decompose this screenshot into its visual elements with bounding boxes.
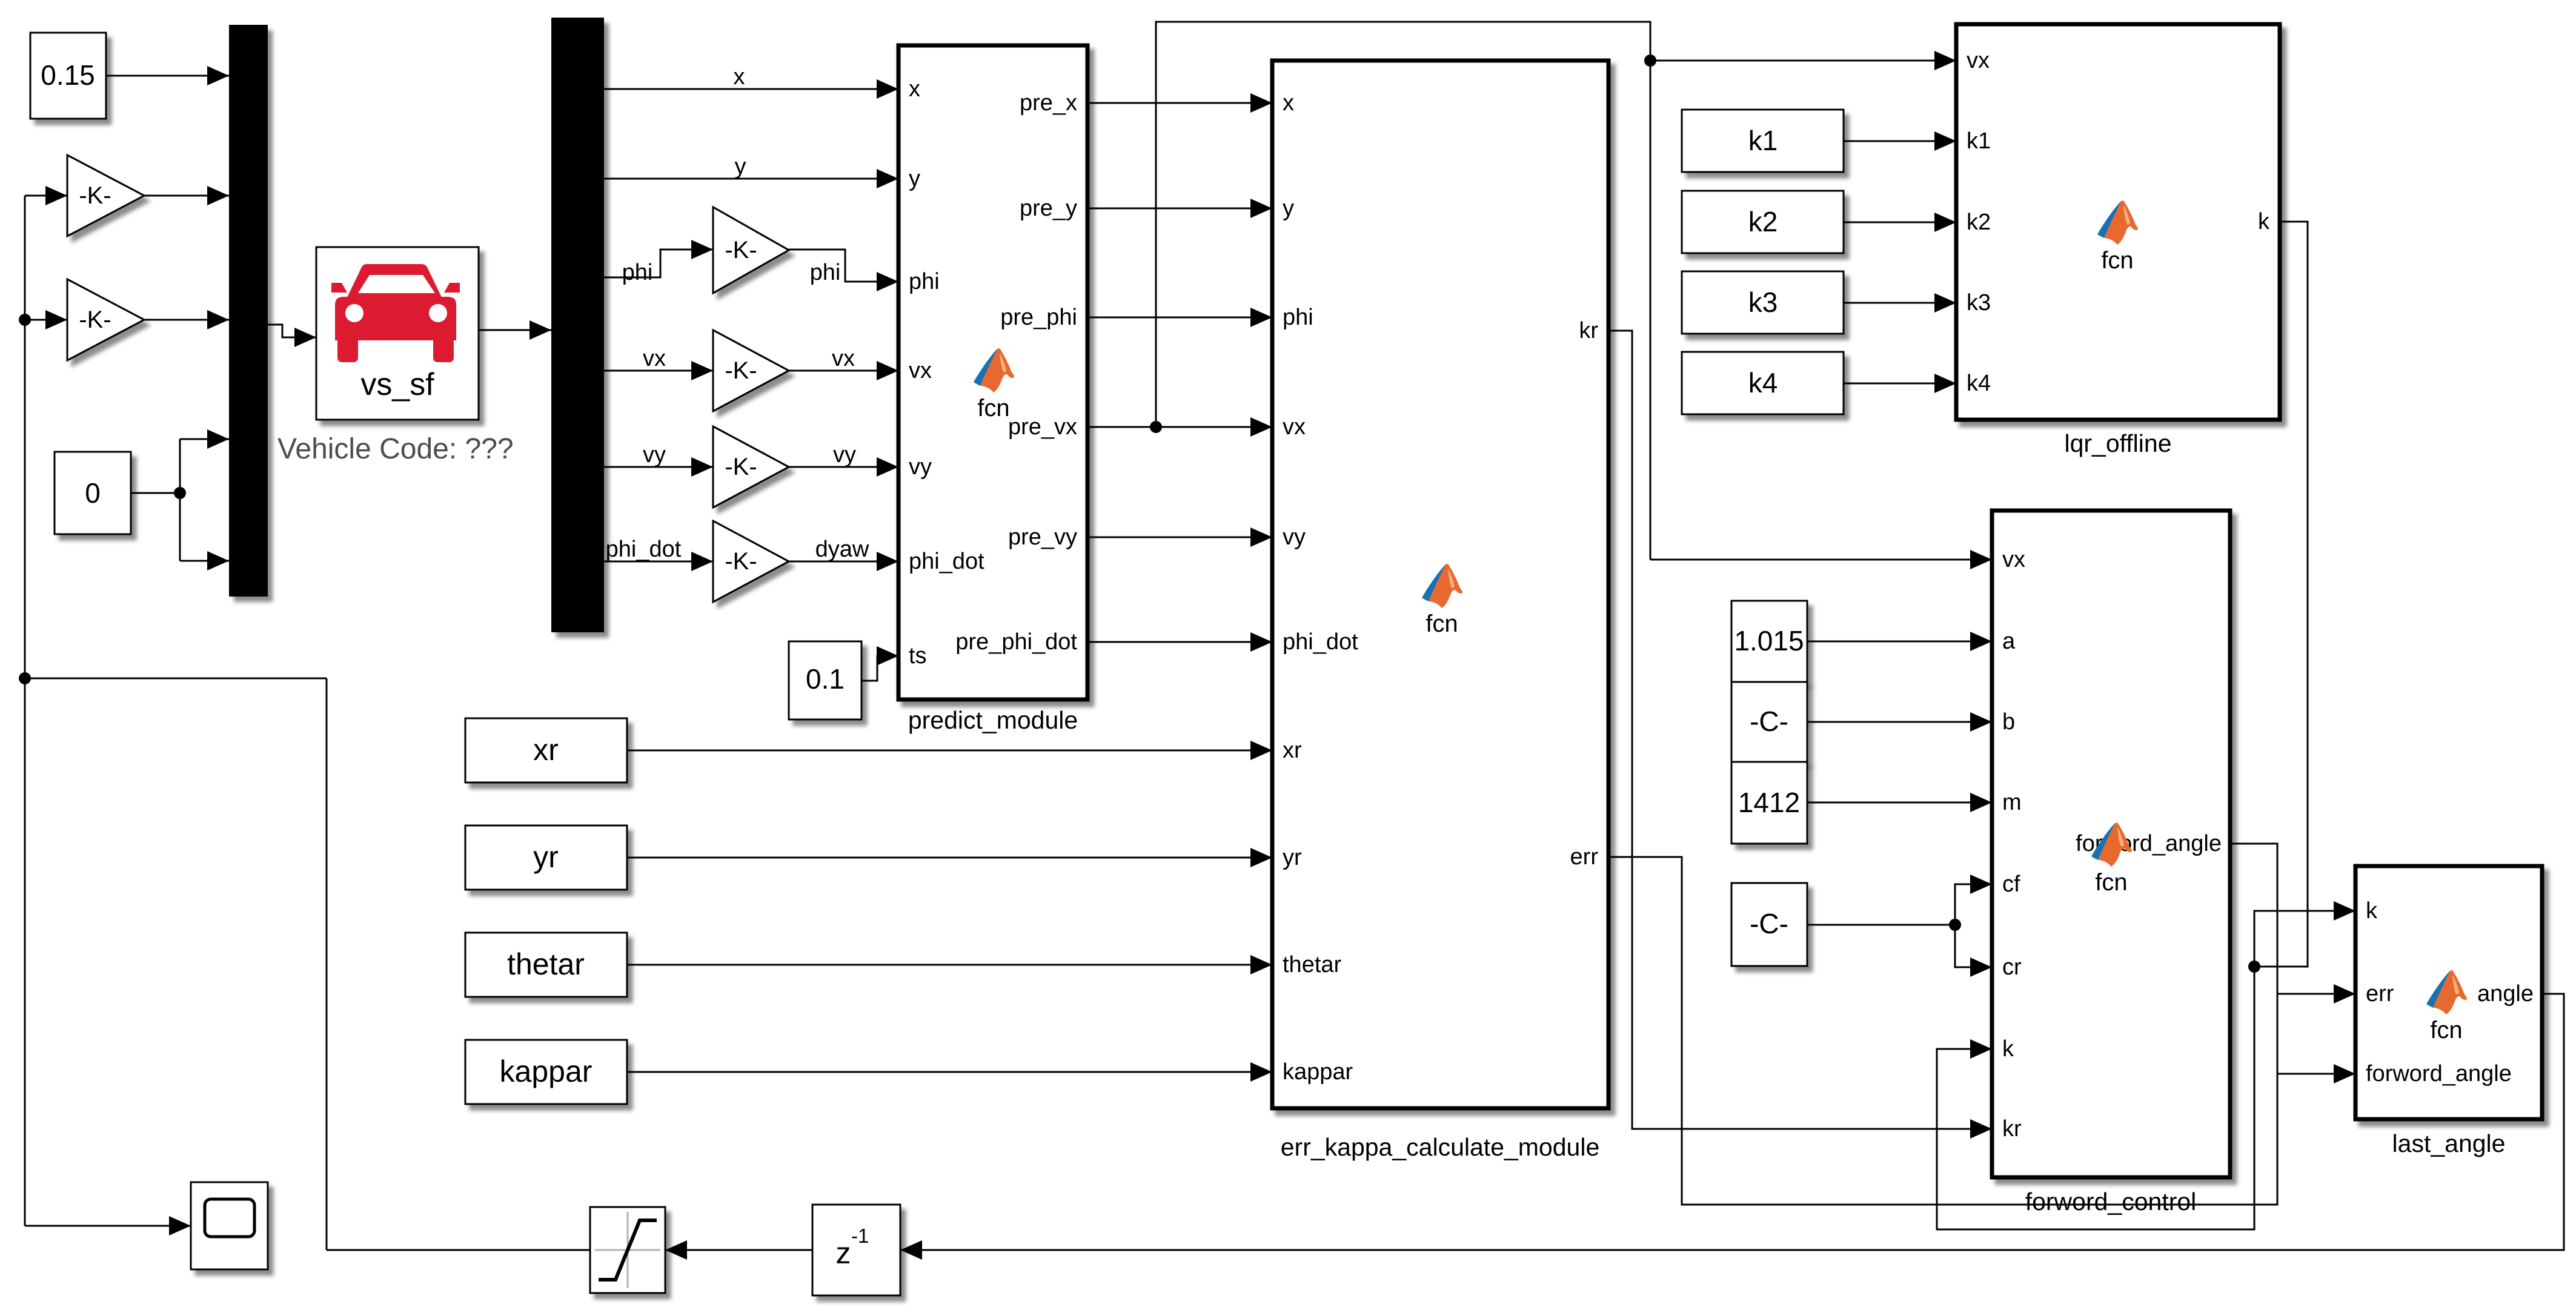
svg-text:forword_control: forword_control [2025, 1188, 2197, 1215]
svg-text:cr: cr [2002, 954, 2022, 980]
wire vx net top route [1156, 22, 1650, 560]
wire saturation out [327, 1249, 590, 1251]
subsystem lqr_offline [1956, 24, 2280, 420]
fcn icon last_angle [2426, 970, 2467, 1014]
wire gain G3 to predict phi [789, 250, 898, 282]
svg-text:xr: xr [533, 733, 559, 767]
junction vx to lqr [1644, 55, 1656, 67]
wire k from lqr_offline [2254, 222, 2308, 967]
junction gain G2 branch [19, 314, 31, 326]
constant k3 [1682, 271, 1844, 334]
svg-text:k2: k2 [1967, 210, 1991, 235]
wire k1 [1844, 141, 1956, 142]
svg-text:-K-: -K- [725, 548, 757, 575]
svg-text:fcn: fcn [2101, 247, 2133, 274]
constant 0.15 [30, 33, 106, 119]
svg-text:a: a [2002, 629, 2016, 654]
wire -C- to cf/cr [1807, 924, 1955, 926]
svg-text:phi: phi [909, 269, 940, 294]
constant -C- front [1731, 682, 1807, 762]
svg-text:ts: ts [909, 643, 927, 669]
wire gain G5 to predict vy [789, 466, 898, 468]
wire gain G2 to mux [144, 319, 229, 321]
source thetar [465, 933, 627, 997]
wire signal phi to gain G3 [604, 250, 713, 277]
constant k2 [1682, 191, 1844, 253]
svg-text:vx: vx [1967, 48, 1990, 73]
wire err to last_angle [1608, 857, 2355, 1205]
svg-text:predict_module: predict_module [908, 706, 1078, 734]
svg-text:pre_phi: pre_phi [1000, 305, 1077, 330]
svg-text:fcn: fcn [1426, 610, 1458, 637]
svg-text:-K-: -K- [79, 306, 111, 333]
svg-text:err_kappa_calculate_module: err_kappa_calculate_module [1281, 1133, 1600, 1161]
fcn icon forword_control [2091, 822, 2132, 867]
wire const 0 out [131, 492, 180, 494]
svg-text:y: y [1283, 196, 1294, 221]
svg-text:k: k [2002, 1036, 2014, 1062]
wire gain G6 dyaw to predict phi_dot [789, 561, 898, 563]
svg-text:y: y [909, 166, 920, 191]
svg-text:vy: vy [1283, 524, 1306, 550]
subsystem predict_module [898, 45, 1087, 699]
constant k4 [1682, 352, 1844, 414]
svg-text:vx: vx [1283, 414, 1306, 440]
svg-text:forword_angle: forword_angle [2366, 1061, 2512, 1086]
subsystem last_angle [2355, 866, 2542, 1119]
svg-text:phi_dot: phi_dot [606, 537, 682, 562]
wire const 0.15 to mux [106, 75, 229, 77]
svg-text:dyaw: dyaw [815, 537, 869, 562]
svg-text:k2: k2 [1748, 206, 1778, 237]
svg-text:fcn: fcn [2430, 1017, 2462, 1043]
gain G6 phi_dot -K- [713, 521, 789, 602]
gain G1 -K- [67, 155, 144, 236]
svg-text:0.1: 0.1 [806, 663, 845, 695]
svg-text:pre_vy: pre_vy [1008, 524, 1077, 550]
wire vs_sf to demux [479, 329, 551, 331]
svg-text:phi: phi [1283, 305, 1313, 330]
svg-text:1412: 1412 [1738, 787, 1800, 818]
svg-text:phi: phi [810, 260, 841, 285]
wire pre_vy [1087, 537, 1272, 538]
svg-text:-K-: -K- [725, 454, 757, 480]
svg-text:vx: vx [909, 358, 932, 383]
saturation block [590, 1207, 665, 1293]
svg-text:y: y [735, 154, 746, 179]
svg-text:Vehicle Code: ???: Vehicle Code: ??? [277, 433, 514, 465]
wire vx to forword_control [1650, 559, 1992, 561]
svg-text:angle: angle [2477, 981, 2534, 1007]
gain G4 vx -K- [713, 330, 789, 411]
svg-text:err: err [2366, 981, 2394, 1007]
svg-text:phi_dot: phi_dot [1283, 629, 1358, 655]
constant 0 [55, 452, 131, 534]
wire const 0 to mux input 5 [180, 560, 229, 562]
svg-text:k: k [2258, 209, 2270, 234]
svg-text:vy: vy [643, 442, 666, 468]
wire signal vy to gain G5 [604, 466, 713, 468]
wire gain G4 to predict vx [789, 370, 898, 372]
fcn icon err_kappa_calculate_module [1422, 564, 1462, 608]
wire into scope [25, 1225, 191, 1227]
wire pre_vx [1087, 426, 1272, 428]
unit delay z^-1 [812, 1205, 900, 1295]
wire k to forword_control [1937, 967, 2254, 1229]
constant 1.015 [1731, 601, 1807, 682]
svg-text:kr: kr [1579, 318, 1598, 343]
svg-text:vx: vx [2002, 547, 2025, 572]
junction cf cr [1949, 919, 1961, 931]
svg-text:b: b [2002, 709, 2015, 735]
wire signal phi_dot to gain G6 [604, 561, 713, 563]
svg-text:kappar: kappar [500, 1054, 593, 1088]
svg-text:k4: k4 [1748, 367, 1778, 399]
svg-text:x: x [734, 64, 745, 90]
svg-text:-C-: -C- [1750, 706, 1788, 737]
svg-text:fcn: fcn [977, 395, 1009, 422]
svg-text:0.15: 0.15 [41, 59, 95, 91]
svg-text:k1: k1 [1748, 125, 1778, 156]
source xr [465, 718, 627, 782]
wire unit delay to saturation [665, 1249, 812, 1251]
svg-text:xr: xr [1283, 738, 1302, 763]
svg-text:x: x [1283, 90, 1294, 116]
subsystem vs_sf vehicle model [316, 247, 479, 420]
wire pre_phi_dot [1087, 641, 1272, 643]
fcn icon lqr_offline [2097, 200, 2138, 245]
svg-text:-K-: -K- [79, 182, 111, 209]
svg-text:z: z [836, 1236, 851, 1270]
wire feedback horizontal upper [25, 678, 327, 680]
wire into gain G2 [25, 319, 67, 321]
wire feedback vertical mid [326, 678, 328, 1250]
svg-text:vx: vx [643, 346, 666, 371]
svg-text:k1: k1 [1967, 128, 1991, 154]
wire pre_phi [1087, 317, 1272, 319]
subsystem err_kappa_calculate_module [1272, 61, 1608, 1108]
wire const 0 branch vertical [179, 439, 181, 561]
mux Mux1 [229, 25, 268, 597]
wire k3 [1844, 302, 1956, 304]
wire angle feedback to unit delay [900, 994, 2564, 1250]
wire signal y [604, 178, 898, 180]
svg-text:yr: yr [533, 840, 559, 874]
svg-text:vy: vy [909, 454, 932, 480]
wire kappar [627, 1071, 1272, 1073]
svg-text:kappar: kappar [1283, 1059, 1353, 1085]
wire const 0 to mux input 4 [180, 438, 229, 440]
junction feedback trunk [19, 672, 31, 684]
svg-text:k: k [2366, 898, 2378, 924]
svg-text:phi_dot: phi_dot [909, 549, 984, 574]
constant k1 [1682, 110, 1844, 172]
svg-text:pre_phi_dot: pre_phi_dot [955, 629, 1077, 655]
svg-text:-K-: -K- [725, 237, 757, 263]
svg-text:k4: k4 [1967, 371, 1991, 396]
wire cr [1955, 925, 1992, 967]
wire pre_y [1087, 208, 1272, 210]
wire const 0.1 to predict ts [861, 656, 898, 681]
junction k net [2248, 961, 2260, 973]
svg-text:last_angle: last_angle [2392, 1129, 2506, 1157]
svg-text:m: m [2002, 790, 2022, 815]
wire xr [627, 750, 1272, 752]
source yr [465, 825, 627, 890]
source kappar [465, 1040, 627, 1104]
wire signal vx to gain G4 [604, 370, 713, 372]
svg-text:thetar: thetar [1283, 952, 1342, 977]
wire m [1807, 802, 1992, 804]
wire k2 [1844, 222, 1956, 223]
svg-text:fcn: fcn [2095, 869, 2127, 896]
junction pre_vx [1150, 421, 1162, 433]
svg-text:k3: k3 [1748, 286, 1778, 318]
junction const 0 branch [174, 487, 186, 499]
wire thetar [627, 964, 1272, 966]
svg-text:thetar: thetar [507, 947, 585, 981]
wire yr [627, 857, 1272, 859]
svg-text:-1: -1 [851, 1225, 869, 1247]
svg-text:x: x [909, 76, 920, 102]
gain G5 vy -K- [713, 426, 789, 508]
svg-text:kr: kr [2002, 1116, 2022, 1142]
wire a [1807, 641, 1992, 643]
svg-text:yr: yr [1283, 845, 1302, 870]
svg-text:-K-: -K- [725, 357, 757, 384]
svg-text:k3: k3 [1967, 290, 1991, 316]
scope [191, 1182, 268, 1269]
svg-text:cf: cf [2002, 871, 2020, 897]
constant 1412 [1731, 762, 1807, 844]
wire b [1807, 721, 1992, 723]
wire gain G1 to mux [144, 195, 229, 197]
svg-text:pre_vx: pre_vx [1008, 414, 1077, 440]
wire k to last_angle [2254, 911, 2355, 967]
svg-text:phi: phi [622, 260, 653, 285]
demux Demux1 [551, 18, 604, 632]
constant -C- cornering [1731, 883, 1807, 966]
svg-text:err: err [1570, 844, 1599, 870]
svg-text:lqr_offline: lqr_offline [2064, 429, 2171, 457]
wire pre_x [1087, 102, 1272, 104]
gain G2 -K- [67, 279, 144, 360]
gain G3 phi -K- [713, 207, 789, 293]
svg-text:pre_y: pre_y [1020, 196, 1077, 221]
wire kr to forword_control [1608, 331, 1992, 1129]
wire forword_angle to last_angle [2230, 844, 2355, 1074]
wire mux to vs_sf [268, 325, 316, 337]
wire cf [1955, 884, 1992, 925]
svg-text:vx: vx [832, 346, 855, 371]
constant 0.1 [789, 641, 861, 719]
svg-text:-C-: -C- [1750, 908, 1788, 939]
wire k4 [1844, 383, 1956, 385]
svg-text:vy: vy [833, 442, 856, 468]
wire feedback trunk vertical left [24, 196, 26, 1226]
svg-text:0: 0 [85, 477, 101, 509]
svg-text:pre_x: pre_x [1020, 90, 1077, 116]
subsystem forword_control [1992, 511, 2230, 1177]
svg-text:vs_sf: vs_sf [360, 367, 434, 402]
fcn icon predict_module [974, 348, 1014, 392]
wire signal x [604, 88, 898, 90]
wire into gain G1 [25, 195, 67, 197]
svg-text:1.015: 1.015 [1734, 625, 1804, 656]
wire vx to lqr_offline [1650, 60, 1956, 62]
